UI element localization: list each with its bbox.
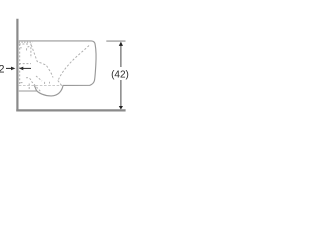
svg-text:(42): (42) — [111, 70, 129, 81]
rear bottom shroud line — [19, 90, 37, 92]
floor — [16, 109, 125, 111]
dashed horizontal mid line — [19, 63, 31, 65]
wall — [16, 19, 18, 112]
dimension (42): down arrow — [119, 106, 123, 110]
dashed outlet box lines — [21, 83, 30, 90]
dashed vertical: rear ceramic edge — [19, 44, 21, 86]
dashed hidden line: top inner edge — [19, 41, 33, 43]
dashed sump tube — [58, 81, 63, 88]
top level extension line — [106, 40, 125, 42]
WC pan outline — [19, 41, 96, 96]
hidden vertical ticks above trap — [45, 82, 50, 84]
dashed bowl funnel left branch — [31, 45, 53, 78]
dashed bowl funnel right branch — [59, 46, 90, 80]
dimension (42): up arrow — [119, 42, 123, 46]
svg-text:2: 2 — [0, 64, 5, 76]
dashed bottom hidden line — [19, 84, 63, 86]
dimension 2: left leader + arrow — [6, 67, 12, 69]
dashed hidden line: secondary top edge — [19, 44, 28, 48]
dimension (42): vertical line upper segment — [120, 46, 122, 68]
dashed outlet pipe diagonal — [32, 76, 43, 92]
dimension 2: right arrow + tail — [19, 67, 23, 71]
dashed outlet bend arc — [26, 78, 31, 82]
dashed flush channel hook — [27, 44, 31, 59]
dimension (42): vertical line lower segment — [120, 80, 122, 106]
